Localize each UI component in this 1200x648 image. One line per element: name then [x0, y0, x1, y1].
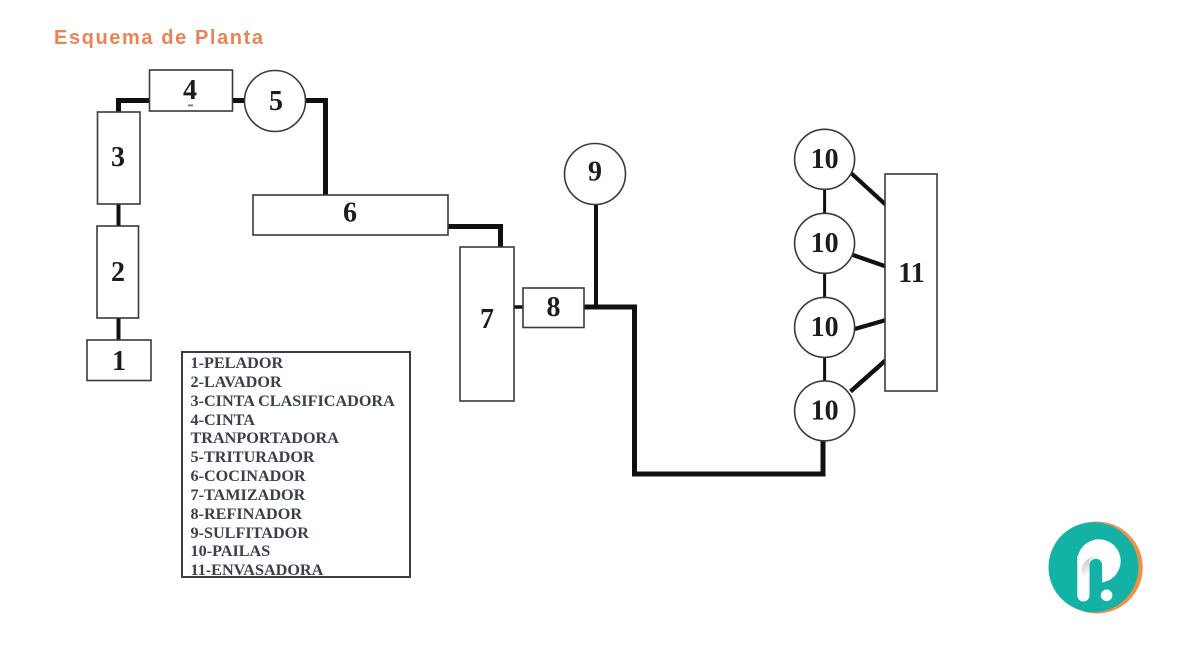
circle 10c PAILAS [795, 297, 855, 357]
wire box1-box2 [117, 318, 121, 340]
logo orange ring [1051, 522, 1143, 614]
legend box [181, 351, 411, 578]
circle 10b PAILAS [795, 213, 855, 273]
box 2 LAVADOR [97, 226, 139, 318]
svg-text:10: 10 [811, 228, 839, 259]
box 6 COCINADOR [253, 195, 448, 235]
title [54, 27, 265, 50]
box 7 TAMIZADOR [460, 247, 514, 401]
svg-text:10: 10 [811, 312, 839, 343]
wire circle10a-box11 [851, 173, 886, 205]
wire circle10c-circle10d [823, 357, 826, 381]
wire box8-elbow-bottom-circle10d [584, 307, 823, 474]
svg-text:10: 10 [811, 144, 839, 175]
box 4 CINTA TRANPORTADORA [150, 70, 233, 111]
circle 9 SULFITADOR [565, 144, 626, 205]
wire circle5-box6 [304, 101, 326, 196]
wire box6-box7 [448, 227, 501, 248]
box 8 REFINADOR [523, 288, 584, 328]
wire box3-box4 [119, 101, 150, 113]
svg-text:5: 5 [269, 86, 283, 117]
circle 10d PAILAS [795, 381, 855, 441]
wire circle10c-box11 [853, 320, 886, 330]
logo white p glyph [1077, 539, 1120, 601]
box 3 CINTA CLASIFICADORA [98, 112, 141, 204]
wire box7-box8 [514, 305, 523, 309]
svg-text:10: 10 [811, 396, 839, 427]
wire box2-box3 [117, 204, 121, 226]
svg-text:3: 3 [111, 142, 125, 173]
logo teal disc [1049, 522, 1139, 612]
wire circle10a-circle10b [823, 189, 826, 214]
svg-text:2: 2 [111, 257, 125, 288]
box 1 PELADOR [87, 340, 151, 381]
svg-text:4: 4 [183, 75, 197, 106]
wire circle10b-circle10c [823, 273, 826, 298]
svg-text:9: 9 [588, 157, 602, 188]
svg-text:8: 8 [547, 292, 561, 323]
svg-text:1: 1 [112, 346, 126, 377]
wire circle9 stem [594, 204, 598, 307]
circle 5 TRITURADOR [245, 71, 306, 132]
svg-text:11: 11 [898, 258, 924, 289]
svg-text:7: 7 [480, 304, 494, 335]
wire box4-circle5 [233, 98, 248, 103]
svg-text:6: 6 [343, 198, 357, 229]
wire circle10b-box11 [853, 255, 886, 267]
circle 10a PAILAS [795, 129, 855, 189]
wire circle10d-box11 [851, 360, 887, 392]
box 11 ENVASADORA [885, 174, 937, 391]
